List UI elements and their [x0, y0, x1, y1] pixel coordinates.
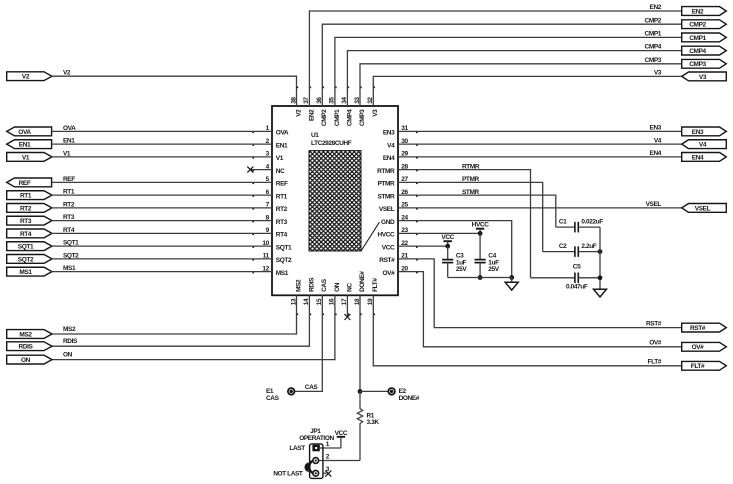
pin 29 EN4: [383, 151, 418, 163]
svg-text:VCC: VCC: [382, 244, 395, 251]
net label RTMR: [462, 163, 480, 170]
net label RT4: [63, 227, 75, 234]
net label MS2: [63, 326, 76, 333]
net tag EN2: [682, 7, 727, 16]
svg-text:RT4: RT4: [63, 227, 75, 234]
wire C3/C4 ground rail: [448, 277, 512, 279]
wire SQT2: [52, 258, 273, 260]
pin 23 HVCC: [377, 227, 417, 239]
pin 16 ON (bottom): [329, 282, 341, 315]
junction VCC/C3: [445, 244, 450, 249]
net tag V4: [682, 140, 727, 149]
svg-text:SQT1: SQT1: [18, 244, 34, 251]
pin 5 REF: [252, 176, 288, 188]
junction C4 bottom rail: [478, 275, 483, 280]
svg-text:MS2: MS2: [19, 331, 32, 338]
wire V2: [52, 76, 297, 106]
svg-text:MS1: MS1: [276, 270, 289, 277]
svg-text:CMP2: CMP2: [689, 22, 706, 29]
net tag SQT1: [7, 242, 52, 251]
U1 refdes label: [311, 132, 319, 139]
wire VSEL: [398, 207, 682, 209]
net label OV#: [649, 340, 662, 347]
pin 37 EN2 (top): [303, 87, 315, 122]
svg-text:V3: V3: [699, 74, 707, 81]
svg-text:JP1: JP1: [310, 428, 321, 435]
net label EN3: [650, 125, 662, 132]
wire RT2: [52, 207, 273, 209]
test point E2 DONE#: [388, 388, 419, 402]
net label EN4: [650, 150, 662, 157]
net tag RT4: [7, 229, 52, 238]
capacitor C3 1uF 25V: [442, 246, 467, 277]
pin 17 NC (bottom): [341, 283, 353, 315]
svg-text:NOT LAST: NOT LAST: [273, 471, 303, 478]
svg-text:EN2: EN2: [308, 109, 315, 121]
pin 17 NC stub with no-connect X: [344, 295, 350, 320]
svg-text:MS2: MS2: [295, 279, 302, 292]
pin 4 NC stub with no-connect X: [247, 167, 272, 173]
svg-text:V3: V3: [372, 109, 379, 117]
svg-text:RT3: RT3: [276, 219, 288, 226]
svg-text:0.022uF: 0.022uF: [581, 218, 603, 225]
wire VCC to JP1 pin1: [320, 447, 341, 449]
net tag RDIS: [7, 342, 52, 351]
net tag FLT#: [682, 361, 727, 370]
svg-text:NC: NC: [346, 283, 353, 292]
svg-text:CAS: CAS: [266, 395, 280, 402]
net label OVA: [63, 125, 76, 132]
svg-text:EN2: EN2: [692, 8, 704, 15]
net label FLT#: [648, 359, 662, 366]
pin 8 RT3: [252, 214, 287, 226]
svg-text:SQT2: SQT2: [18, 256, 34, 263]
net tag V3: [682, 72, 727, 81]
net label REF: [63, 176, 75, 183]
net label CMP1: [645, 31, 662, 38]
svg-text:C5: C5: [573, 264, 581, 271]
svg-text:RST#: RST#: [646, 321, 662, 328]
net tag OV#: [682, 342, 727, 351]
wire RST#: [398, 259, 682, 328]
net label V1: [63, 150, 71, 157]
svg-text:25V: 25V: [456, 266, 467, 273]
pin 34 CMP4 (top): [341, 87, 353, 127]
svg-text:EN3: EN3: [692, 129, 704, 136]
wire GND (pin 24 to ground): [398, 221, 512, 278]
JP1 pin3 stub with no-connect X: [323, 471, 331, 477]
svg-text:RTMR: RTMR: [377, 168, 395, 175]
svg-text:RST#: RST#: [690, 325, 706, 332]
net label CAS: [305, 384, 319, 391]
pin 20 OV#: [382, 265, 417, 277]
svg-text:CMP3: CMP3: [689, 61, 706, 68]
wire FLT#: [373, 295, 681, 366]
junction DONE#/E2/R1: [358, 389, 363, 394]
wire RDIS: [52, 295, 310, 346]
net label VSEL: [646, 201, 662, 208]
svg-text:V1: V1: [22, 154, 30, 161]
svg-text:RDIS: RDIS: [19, 344, 34, 351]
svg-text:V2: V2: [22, 74, 30, 81]
svg-text:ON: ON: [21, 357, 31, 364]
svg-text:OPERATION: OPERATION: [299, 435, 334, 442]
svg-text:REF: REF: [276, 181, 288, 188]
wire MS2: [52, 295, 297, 334]
net label ON: [63, 352, 73, 359]
pin 36 CMP2 (top): [316, 87, 328, 127]
ground (C1/C2/C5): [594, 289, 607, 297]
pin 10 SQT1: [252, 240, 292, 252]
svg-text:EN2: EN2: [650, 4, 662, 11]
wire CMP1: [335, 37, 682, 106]
power VCC: [441, 234, 454, 246]
net tag REF: [7, 178, 52, 187]
net label CMP4: [645, 44, 662, 51]
svg-text:E2: E2: [399, 388, 407, 395]
wire STMR: [398, 195, 556, 227]
net label EN2: [650, 4, 662, 11]
net tag ON: [7, 355, 52, 364]
svg-text:MS1: MS1: [19, 269, 32, 276]
svg-text:CMP2: CMP2: [321, 109, 328, 126]
pin 33 CMP3 (top): [354, 87, 366, 127]
svg-text:SQT1: SQT1: [276, 244, 292, 251]
net tag MS2: [7, 330, 52, 339]
pin 31 EN3: [383, 125, 418, 137]
svg-text:ON: ON: [334, 282, 341, 292]
net tag VSEL: [682, 204, 727, 213]
svg-text:REF: REF: [19, 180, 31, 187]
pin 28 RTMR: [377, 163, 418, 175]
pin 22 VCC: [382, 240, 418, 252]
net label EN1: [63, 138, 75, 145]
wire EN4: [398, 156, 682, 158]
net label V2: [63, 70, 71, 77]
wire EN2: [309, 11, 681, 106]
svg-text:C1: C1: [559, 218, 567, 225]
capacitor C4 1uF 25V: [475, 233, 500, 277]
label LAST: [289, 445, 305, 452]
net tag OVA: [7, 127, 52, 136]
svg-text:U1: U1: [311, 132, 319, 139]
pin 4 NC: [252, 163, 285, 175]
net label RT1: [63, 189, 75, 196]
pin 6 RT1: [252, 189, 287, 201]
net tag CMP1: [682, 33, 727, 42]
svg-text:OVA: OVA: [18, 129, 31, 136]
svg-text:MS2: MS2: [63, 326, 76, 333]
wire RTMR: [398, 170, 531, 278]
capacitor C2 2.2uF: [543, 243, 600, 257]
svg-text:RT4: RT4: [20, 231, 32, 238]
svg-text:EN1: EN1: [276, 142, 288, 149]
svg-text:RT2: RT2: [20, 205, 32, 212]
svg-text:2.2uF: 2.2uF: [581, 243, 596, 250]
svg-text:RT1: RT1: [276, 193, 288, 200]
net label RST#: [646, 321, 662, 328]
net tag CMP4: [682, 46, 727, 55]
svg-text:3.3K: 3.3K: [367, 419, 380, 426]
svg-text:FLT#: FLT#: [691, 363, 705, 370]
svg-text:VSEL: VSEL: [646, 201, 662, 208]
wire exposed pad to GND pin (diagonal): [361, 222, 380, 251]
svg-text:V4: V4: [387, 142, 395, 149]
pin 15 CAS (bottom): [316, 278, 328, 315]
svg-text:OVA: OVA: [276, 130, 289, 137]
pin 2 EN1: [252, 138, 288, 150]
wire CMP4: [347, 51, 681, 106]
net label RT3: [63, 214, 75, 221]
svg-text:STMR: STMR: [377, 193, 395, 200]
svg-text:STMR: STMR: [462, 189, 480, 196]
test point E1 CAS: [266, 388, 295, 402]
net tag RST#: [682, 323, 727, 332]
svg-text:HVCC: HVCC: [377, 232, 395, 239]
net tag EN3: [682, 127, 727, 136]
pin 7 RT2: [252, 202, 287, 214]
label NOT LAST: [273, 471, 303, 478]
svg-text:RT4: RT4: [276, 232, 288, 239]
svg-text:EN4: EN4: [692, 154, 704, 161]
net label V3: [654, 70, 662, 77]
svg-text:0.047uF: 0.047uF: [566, 284, 588, 291]
svg-text:E1: E1: [266, 388, 274, 395]
U1 part number label: [311, 140, 352, 147]
svg-text:RT1: RT1: [20, 193, 32, 200]
wire JP1 pin2 to R1: [316, 460, 360, 462]
resistor R1 3.3K: [357, 391, 379, 460]
wire VCC: [398, 245, 448, 247]
svg-text:LAST: LAST: [289, 445, 305, 452]
capacitor C5 0.047uF: [531, 264, 601, 291]
net tag CMP3: [682, 59, 727, 68]
pin 21 RST#: [379, 253, 417, 265]
wire REF: [52, 181, 273, 183]
net label RDIS: [63, 338, 78, 345]
svg-text:CMP3: CMP3: [359, 109, 366, 126]
wire OV#: [398, 272, 682, 347]
svg-text:DONE#: DONE#: [399, 395, 420, 402]
svg-text:MS1: MS1: [63, 265, 76, 272]
net label CMP2: [645, 17, 662, 24]
svg-text:25V: 25V: [488, 266, 499, 273]
svg-text:38: 38: [290, 97, 297, 104]
wire V3: [373, 76, 681, 106]
net label SQT1: [63, 240, 79, 247]
svg-text:RT1: RT1: [63, 189, 75, 196]
junction C2 right: [598, 249, 603, 254]
svg-text:V2: V2: [295, 109, 302, 117]
wire CAS: [295, 295, 323, 391]
svg-text:V3: V3: [654, 70, 662, 77]
svg-text:RT3: RT3: [63, 214, 75, 221]
net tag MS1: [7, 267, 52, 276]
wire MS1: [52, 271, 273, 273]
svg-text:SQT2: SQT2: [63, 252, 79, 259]
wire DONE# to E2: [360, 390, 388, 392]
svg-text:PTMR: PTMR: [377, 181, 395, 188]
net label PTMR: [462, 176, 480, 183]
pin 13 MS2 (bottom): [290, 279, 302, 315]
svg-text:EN3: EN3: [650, 125, 662, 132]
svg-text:RDIS: RDIS: [63, 338, 78, 345]
svg-text:VCC: VCC: [441, 234, 454, 241]
wire SQT1: [52, 245, 273, 247]
wire RT3: [52, 220, 273, 222]
pin 9 RT4: [252, 227, 287, 239]
svg-text:FLT#: FLT#: [372, 278, 379, 292]
op-amp U1 LTC2928CUHF body: [272, 106, 398, 295]
pin 18 DONE# (bottom): [354, 271, 366, 315]
net tag EN1: [7, 140, 52, 149]
svg-text:ON: ON: [63, 352, 73, 359]
wire OVA: [52, 130, 273, 132]
svg-text:HVCC: HVCC: [472, 222, 490, 229]
svg-text:CMP4: CMP4: [645, 44, 662, 51]
net tag RT3: [7, 216, 52, 225]
wire ON: [52, 295, 335, 359]
svg-text:C2: C2: [559, 243, 567, 250]
svg-text:REF: REF: [63, 176, 75, 183]
svg-text:LTC2928CUHF: LTC2928CUHF: [311, 140, 352, 147]
net tag CMP2: [682, 20, 727, 29]
svg-text:FLT#: FLT#: [648, 359, 662, 366]
svg-text:CMP3: CMP3: [645, 57, 662, 64]
svg-text:RT3: RT3: [20, 218, 32, 225]
svg-text:V2: V2: [63, 70, 71, 77]
net label V4: [654, 137, 662, 144]
pin 24 GND: [381, 214, 418, 226]
svg-text:CMP1: CMP1: [645, 31, 662, 38]
wire C1/C2/C5 common: [599, 227, 601, 289]
svg-text:EN4: EN4: [383, 155, 395, 162]
net label STMR: [462, 189, 480, 196]
wire EN1: [52, 143, 273, 145]
wire PTMR: [398, 182, 543, 251]
svg-text:VSEL: VSEL: [379, 206, 395, 213]
svg-text:EN3: EN3: [383, 130, 395, 137]
svg-text:OVA: OVA: [63, 125, 76, 132]
svg-text:CAS: CAS: [305, 384, 319, 391]
svg-text:DONE#: DONE#: [359, 271, 366, 292]
svg-text:CMP2: CMP2: [645, 17, 662, 24]
pin 3 V1: [252, 151, 283, 163]
pin 26 STMR: [377, 189, 417, 201]
jumper shunt (LAST..NOT LAST positions): [304, 461, 313, 474]
pin 19 FLT# (bottom): [367, 278, 379, 315]
pin 32 V3 (top): [367, 87, 379, 117]
svg-text:OV#: OV#: [382, 270, 395, 277]
power VCC (JP1): [335, 430, 348, 448]
wire V4: [398, 143, 682, 145]
wire CMP3: [360, 64, 682, 106]
pin 30 V4: [387, 138, 418, 150]
svg-text:SQT2: SQT2: [276, 257, 292, 264]
junction C5 right: [598, 275, 603, 280]
svg-text:VSEL: VSEL: [695, 205, 711, 212]
net tag V2: [7, 72, 52, 81]
svg-text:CMP4: CMP4: [689, 48, 706, 55]
net tag SQT2: [7, 255, 52, 264]
net tag V1: [7, 153, 52, 162]
ground (C3/C4 rail): [505, 278, 518, 291]
U1 exposed pad (crosshatch): [309, 151, 361, 251]
JP1 pin labels: [326, 441, 330, 473]
wire V1: [52, 156, 273, 158]
net tag RT2: [7, 204, 52, 213]
power HVCC: [472, 222, 490, 234]
svg-text:CMP1: CMP1: [689, 35, 706, 42]
svg-text:V4: V4: [654, 137, 662, 144]
svg-text:VCC: VCC: [335, 430, 348, 437]
svg-text:V4: V4: [699, 142, 707, 149]
svg-text:RT2: RT2: [63, 201, 75, 208]
svg-text:GND: GND: [381, 219, 395, 226]
wire HVCC: [398, 232, 480, 234]
svg-text:NC: NC: [276, 168, 285, 175]
wire RT4: [52, 232, 273, 234]
svg-text:RDIS: RDIS: [308, 277, 315, 292]
junction GND rail: [509, 275, 514, 280]
pin 12 MS1: [252, 265, 288, 277]
pin 25 VSEL: [379, 202, 418, 214]
svg-text:RST#: RST#: [379, 257, 395, 264]
wire RT1: [52, 194, 273, 196]
net tag EN4: [682, 153, 727, 162]
net label SQT2: [63, 252, 79, 259]
svg-text:CMP1: CMP1: [334, 109, 341, 126]
svg-text:V1: V1: [63, 150, 71, 157]
pin 14 RDIS (bottom): [303, 277, 315, 315]
svg-text:CAS: CAS: [321, 278, 328, 292]
svg-text:RTMR: RTMR: [462, 163, 480, 170]
wire CMP2: [322, 24, 681, 106]
capacitor C1 0.022uF: [556, 218, 603, 232]
pin 1 OVA: [252, 125, 289, 137]
pin 11 SQT2: [252, 253, 292, 265]
svg-text:EN1: EN1: [63, 138, 75, 145]
svg-text:V1: V1: [276, 155, 284, 162]
svg-text:CMP4: CMP4: [346, 109, 353, 126]
wire DONE#: [359, 295, 361, 391]
connector JP1 OPERATION: [299, 428, 334, 478]
svg-text:EN4: EN4: [650, 150, 662, 157]
net label MS1: [63, 265, 76, 272]
pin 38 V2 (top): [290, 87, 302, 117]
svg-text:OV#: OV#: [692, 344, 705, 351]
svg-text:SQT1: SQT1: [63, 240, 79, 247]
pin 35 CMP1 (top): [329, 87, 341, 127]
svg-text:PTMR: PTMR: [462, 176, 480, 183]
junction HVCC/C4: [478, 231, 483, 236]
wire EN3: [398, 130, 682, 132]
net tag RT1: [7, 191, 52, 200]
svg-text:RT2: RT2: [276, 206, 288, 213]
svg-text:OV#: OV#: [649, 340, 662, 347]
svg-text:EN1: EN1: [19, 142, 31, 149]
net label RT2: [63, 201, 75, 208]
net label CMP3: [645, 57, 662, 64]
pin 27 PTMR: [377, 176, 417, 188]
